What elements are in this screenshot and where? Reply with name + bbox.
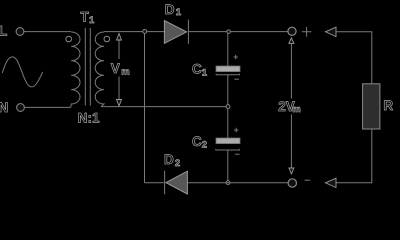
capacitor C1 minus mark [234, 78, 239, 80]
wire N to transformer primary bottom [25, 106, 71, 108]
junction C2 to bottom wire [226, 181, 230, 185]
capacitor C1 plus mark [234, 55, 238, 59]
terminal N node [17, 104, 25, 112]
secondary bottom wire to capacitors midpoint [101, 106, 226, 108]
svg-text:2: 2 [202, 140, 207, 151]
capacitor C1 bottom plate [216, 74, 239, 75]
load arrow top [325, 27, 336, 36]
svg-text:D: D [165, 2, 175, 17]
svg-text:2: 2 [175, 158, 180, 169]
resistor R [363, 84, 380, 129]
wire branch to D2 cathode [145, 182, 164, 184]
svg-text:R: R [383, 98, 393, 113]
minus node [288, 179, 296, 187]
svg-text:L: L [0, 24, 7, 39]
secondary phasing dot [104, 36, 110, 42]
branch wire down to D2 [144, 34, 146, 183]
wire load top [336, 32, 372, 84]
capacitor C1 lead bottom [227, 75, 229, 105]
svg-text:m: m [121, 67, 129, 78]
transformer primary winding [71, 32, 80, 107]
secondary top wire to D1 [104, 31, 164, 33]
capacitor C2 bottom plate [216, 149, 240, 150]
junction to C1 [227, 30, 231, 34]
svg-text:C: C [192, 134, 202, 149]
diode D1 [164, 21, 186, 44]
wire D1 cathode to plus node [188, 31, 287, 33]
junction to D2 branch [143, 29, 147, 33]
svg-text:1: 1 [176, 7, 182, 18]
svg-text:N:1: N:1 [78, 111, 100, 126]
transformer core [84, 28, 86, 106]
load arrow bottom [325, 178, 336, 187]
AC source sine wave [2, 57, 42, 87]
plus node [288, 27, 296, 35]
svg-text:D: D [164, 152, 174, 167]
capacitor C2 plus mark [234, 128, 238, 132]
svg-text:N: N [0, 100, 8, 115]
wire midpoint to C2 [227, 109, 229, 138]
capacitor C1 top plate [216, 66, 240, 72]
wire L to transformer primary top [24, 31, 71, 33]
minus label [305, 179, 311, 181]
wire load bottom [336, 129, 372, 183]
svg-text:m: m [292, 104, 300, 115]
capacitor C2 top plate [216, 138, 240, 144]
Vm measurement arrow [118, 39, 120, 60]
transformer secondary winding [95, 32, 104, 107]
svg-text:V: V [111, 61, 120, 76]
junction capacitors midpoint [226, 105, 230, 109]
diode D2 cathode bar [164, 171, 166, 195]
svg-text:1: 1 [89, 15, 95, 26]
svg-text:C: C [192, 62, 202, 77]
capacitor C2 minus mark [235, 153, 240, 155]
svg-text:1: 1 [202, 67, 208, 78]
plus label [302, 27, 312, 37]
2Vm measurement arrow [289, 38, 294, 44]
wire D2 anode to minus node [187, 182, 288, 184]
primary phasing dot [66, 36, 72, 42]
capacitor C1 lead top [227, 34, 229, 66]
capacitor C2 lead bottom [227, 150, 229, 181]
terminal L node [16, 28, 24, 36]
diode D2 [166, 171, 188, 194]
